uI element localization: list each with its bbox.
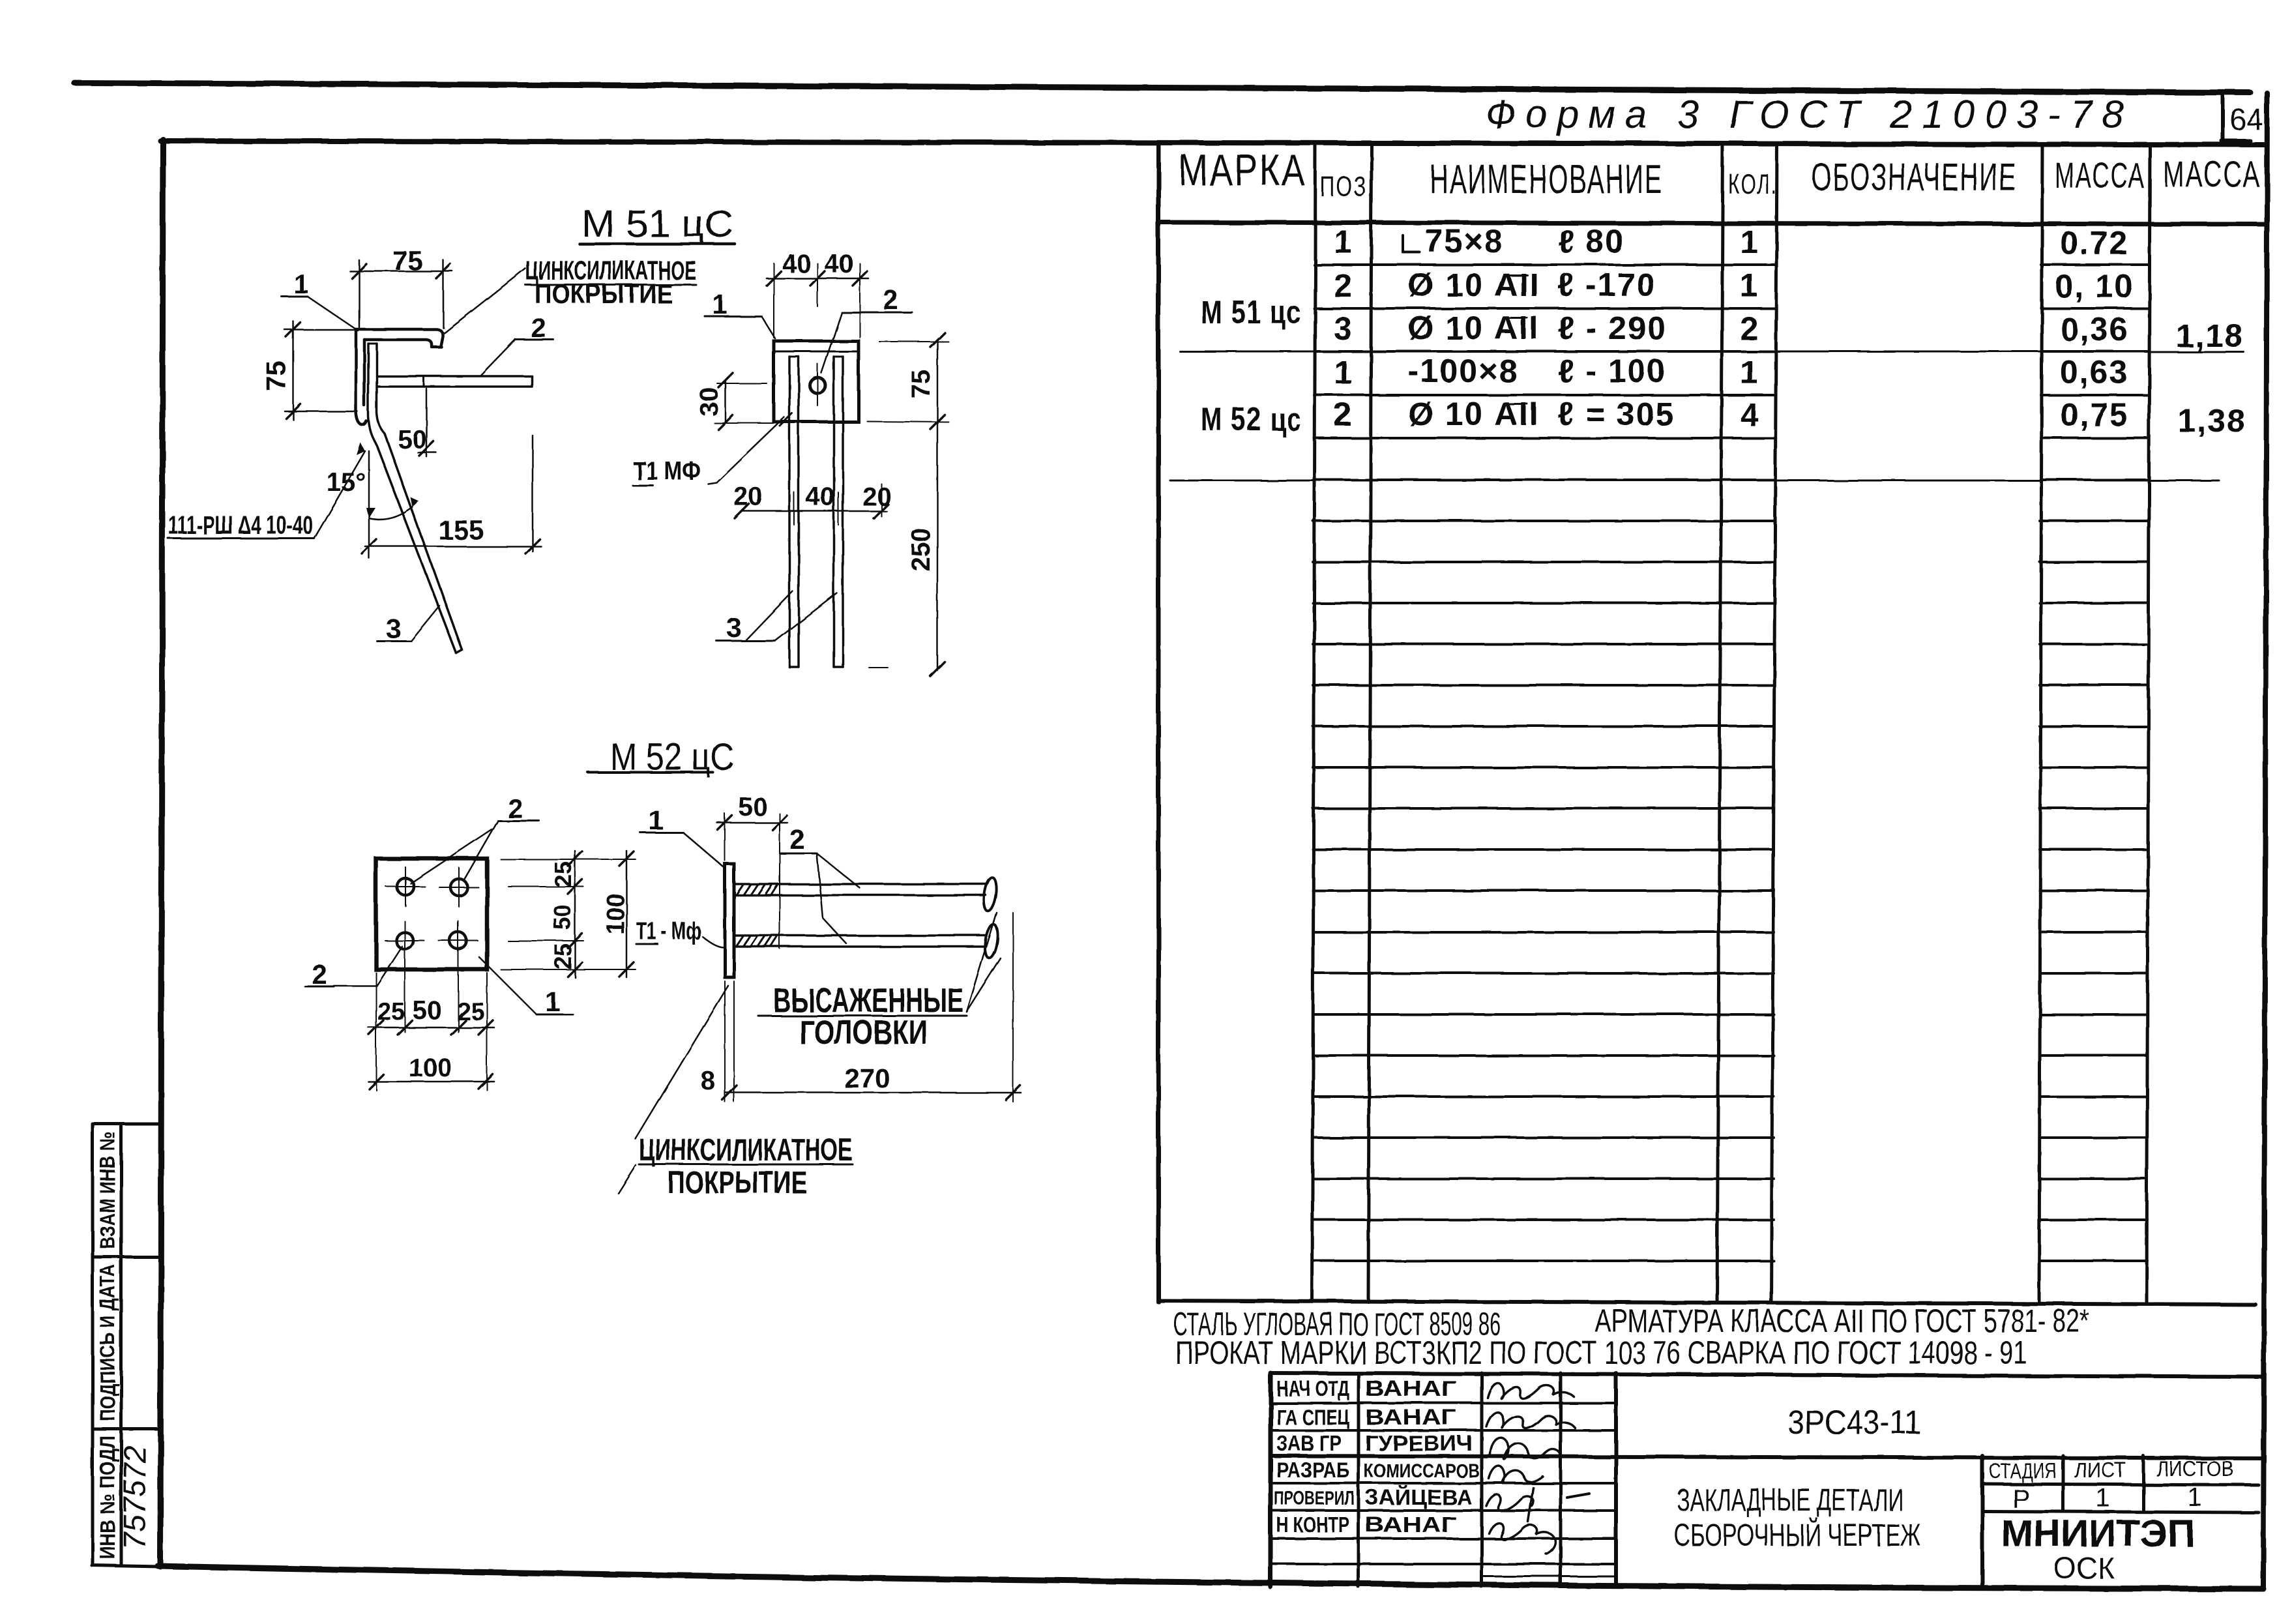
svg-text:ИНВ № ПОДЛ: ИНВ № ПОДЛ xyxy=(96,1436,119,1559)
svg-text:40: 40 xyxy=(825,250,854,278)
svg-text:4: 4 xyxy=(1740,396,1759,433)
svg-text:1: 1 xyxy=(712,289,727,319)
svg-text:СБОРОЧНЫЙ ЧЕРТЕЖ: СБОРОЧНЫЙ ЧЕРТЕЖ xyxy=(1674,1517,1921,1553)
svg-text:25: 25 xyxy=(550,943,576,969)
svg-text:МНИИТЭП: МНИИТЭП xyxy=(2001,1513,2195,1555)
svg-text:Т1 МФ: Т1 МФ xyxy=(633,457,701,486)
svg-text:ЗАКЛАДНЫЕ ДЕТАЛИ: ЗАКЛАДНЫЕ ДЕТАЛИ xyxy=(1677,1483,1903,1518)
svg-text:2: 2 xyxy=(883,284,898,315)
svg-text:0,75: 0,75 xyxy=(2060,396,2128,433)
svg-text:ПОКРЫТИЕ: ПОКРЫТИЕ xyxy=(535,278,673,309)
svg-text:ЗАЙЦЕВА: ЗАЙЦЕВА xyxy=(1365,1484,1473,1509)
svg-text:ПРОКАТ МАРКИ ВСТ3КП2 ПО ГОСТ: ПРОКАТ МАРКИ ВСТ3КП2 ПО ГОСТ 103 76 СВАР… xyxy=(1175,1335,2027,1371)
svg-text:1: 1 xyxy=(1740,224,1759,260)
svg-text:АРМАТУРА КЛАССА АII ПО ГОСТ 5: АРМАТУРА КЛАССА АII ПО ГОСТ 5781- 82* xyxy=(1595,1303,2089,1339)
svg-text:1: 1 xyxy=(1740,354,1759,391)
svg-text:ВАНАГ: ВАНАГ xyxy=(1365,1376,1456,1400)
svg-text:1,18: 1,18 xyxy=(2175,317,2244,354)
svg-text:2: 2 xyxy=(531,312,546,343)
svg-text:50: 50 xyxy=(549,904,576,930)
svg-text:0.72: 0.72 xyxy=(2060,225,2128,261)
svg-text:2: 2 xyxy=(1334,396,1353,433)
svg-text:ПРОВЕРИЛ: ПРОВЕРИЛ xyxy=(1274,1488,1355,1509)
svg-text:ПОКРЫТИЕ: ПОКРЫТИЕ xyxy=(668,1166,807,1200)
svg-text:15°: 15° xyxy=(327,468,366,497)
svg-text:1: 1 xyxy=(2096,1484,2110,1513)
svg-text:2: 2 xyxy=(1334,267,1353,304)
svg-text:3: 3 xyxy=(385,613,400,643)
svg-text:100: 100 xyxy=(409,1054,452,1082)
svg-text:КОЛ.: КОЛ. xyxy=(1728,168,1778,200)
svg-text:40: 40 xyxy=(782,250,812,278)
svg-text:75: 75 xyxy=(261,361,291,392)
svg-text:ПОДПИСЬ И ДАТА: ПОДПИСЬ И ДАТА xyxy=(96,1265,119,1421)
svg-text:3РС43-11: 3РС43-11 xyxy=(1787,1404,1921,1441)
svg-text:1: 1 xyxy=(545,986,560,1017)
svg-text:СТАДИЯ: СТАДИЯ xyxy=(1989,1459,2057,1483)
svg-text:1: 1 xyxy=(293,269,308,299)
svg-text:ГОЛОВКИ: ГОЛОВКИ xyxy=(799,1014,928,1052)
svg-text:Ø 10 АII: Ø 10 АII xyxy=(1408,267,1540,303)
svg-text:ℓ = 305: ℓ = 305 xyxy=(1558,396,1675,432)
svg-text:75: 75 xyxy=(392,245,423,276)
svg-text:ВАНАГ: ВАНАГ xyxy=(1365,1513,1456,1537)
svg-text:1: 1 xyxy=(648,805,663,835)
svg-text:25: 25 xyxy=(377,998,405,1026)
svg-text:ЛИСТ: ЛИСТ xyxy=(2074,1458,2126,1482)
svg-text:50: 50 xyxy=(739,793,768,821)
svg-text:ГУРЕВИЧ: ГУРЕВИЧ xyxy=(1365,1431,1473,1455)
svg-text:20: 20 xyxy=(734,482,763,511)
svg-text:Ø 10 АII: Ø 10 АII xyxy=(1408,310,1540,346)
svg-text:250: 250 xyxy=(907,528,935,572)
svg-text:0,36: 0,36 xyxy=(2060,311,2128,347)
svg-text:КОМИССАРОВ: КОМИССАРОВ xyxy=(1364,1460,1480,1482)
svg-text:111-РШ Δ4 10-40: 111-РШ Δ4 10-40 xyxy=(168,511,313,540)
svg-text:М 51 цС: М 51 цС xyxy=(581,203,733,245)
svg-text:3: 3 xyxy=(726,612,741,643)
svg-text:ОСК: ОСК xyxy=(2053,1551,2115,1585)
svg-text:8: 8 xyxy=(701,1067,715,1095)
svg-text:Т1 - Мф: Т1 - Мф xyxy=(636,918,701,945)
svg-text:1,38: 1,38 xyxy=(2177,402,2246,439)
svg-text:270: 270 xyxy=(844,1063,890,1093)
svg-text:ЛИСТОВ: ЛИСТОВ xyxy=(2156,1457,2234,1481)
svg-text:ЗАВ ГР: ЗАВ ГР xyxy=(1276,1431,1342,1455)
svg-text:25: 25 xyxy=(457,998,484,1026)
svg-text:2: 2 xyxy=(789,824,804,855)
svg-text:-100×8: -100×8 xyxy=(1408,353,1518,389)
svg-text:50: 50 xyxy=(413,996,442,1025)
svg-text:ОБОЗНАЧЕНИЕ: ОБОЗНАЧЕНИЕ xyxy=(1812,155,2017,199)
svg-text:ℓ - 100: ℓ - 100 xyxy=(1558,353,1666,389)
svg-text:ПОЗ.: ПОЗ. xyxy=(1320,171,1375,203)
svg-text:30: 30 xyxy=(695,387,724,417)
svg-text:40: 40 xyxy=(806,482,835,511)
svg-text:Ø 10 АII: Ø 10 АII xyxy=(1408,396,1540,432)
svg-text:МАССА: МАССА xyxy=(2163,153,2261,194)
svg-text:ВАНАГ: ВАНАГ xyxy=(1365,1405,1456,1429)
svg-text:25: 25 xyxy=(550,861,576,887)
svg-text:3: 3 xyxy=(1334,310,1353,347)
svg-text:ВЗАМ ИНВ №: ВЗАМ ИНВ № xyxy=(96,1132,119,1249)
svg-text:155: 155 xyxy=(438,514,484,545)
svg-text:ГА СПЕЦ: ГА СПЕЦ xyxy=(1276,1405,1349,1429)
svg-text:МАРКА: МАРКА xyxy=(1179,145,1306,195)
svg-text:ЦИНКСИЛИКАТНОЕ: ЦИНКСИЛИКАТНОЕ xyxy=(639,1133,853,1168)
svg-text:МАССА: МАССА xyxy=(2055,155,2145,196)
svg-text:757572: 757572 xyxy=(118,1445,153,1550)
svg-text:75: 75 xyxy=(907,370,935,399)
svg-text:64: 64 xyxy=(2229,102,2263,136)
svg-text:ℓ 80: ℓ 80 xyxy=(1558,223,1624,259)
svg-text:20: 20 xyxy=(862,482,892,511)
svg-text:0, 10: 0, 10 xyxy=(2055,268,2134,304)
svg-text:1: 1 xyxy=(2188,1483,2202,1512)
svg-text:М 51 цс: М 51 цс xyxy=(1201,294,1302,331)
svg-text:100: 100 xyxy=(602,893,630,934)
svg-text:75×8: 75×8 xyxy=(1425,223,1504,259)
svg-text:НАЧ ОТД: НАЧ ОТД xyxy=(1276,1376,1349,1400)
svg-text:ℓ -170: ℓ -170 xyxy=(1558,267,1656,303)
svg-text:1: 1 xyxy=(1740,267,1759,304)
svg-text:М 52 цс: М 52 цс xyxy=(1201,401,1302,437)
svg-text:2: 2 xyxy=(1740,310,1759,347)
svg-text:2: 2 xyxy=(312,959,327,990)
svg-text:Р: Р xyxy=(2012,1484,2030,1513)
svg-text:Н КОНТР: Н КОНТР xyxy=(1276,1513,1349,1537)
svg-text:НАИМЕНОВАНИЕ: НАИМЕНОВАНИЕ xyxy=(1430,157,1663,202)
svg-text:ℓ - 290: ℓ - 290 xyxy=(1558,310,1666,346)
svg-text:2: 2 xyxy=(507,793,522,823)
svg-text:50: 50 xyxy=(398,425,427,454)
svg-text:1: 1 xyxy=(1334,224,1353,260)
svg-text:1: 1 xyxy=(1334,354,1353,391)
svg-text:РАЗРАБ: РАЗРАБ xyxy=(1276,1458,1349,1482)
svg-text:0,63: 0,63 xyxy=(2060,354,2128,391)
